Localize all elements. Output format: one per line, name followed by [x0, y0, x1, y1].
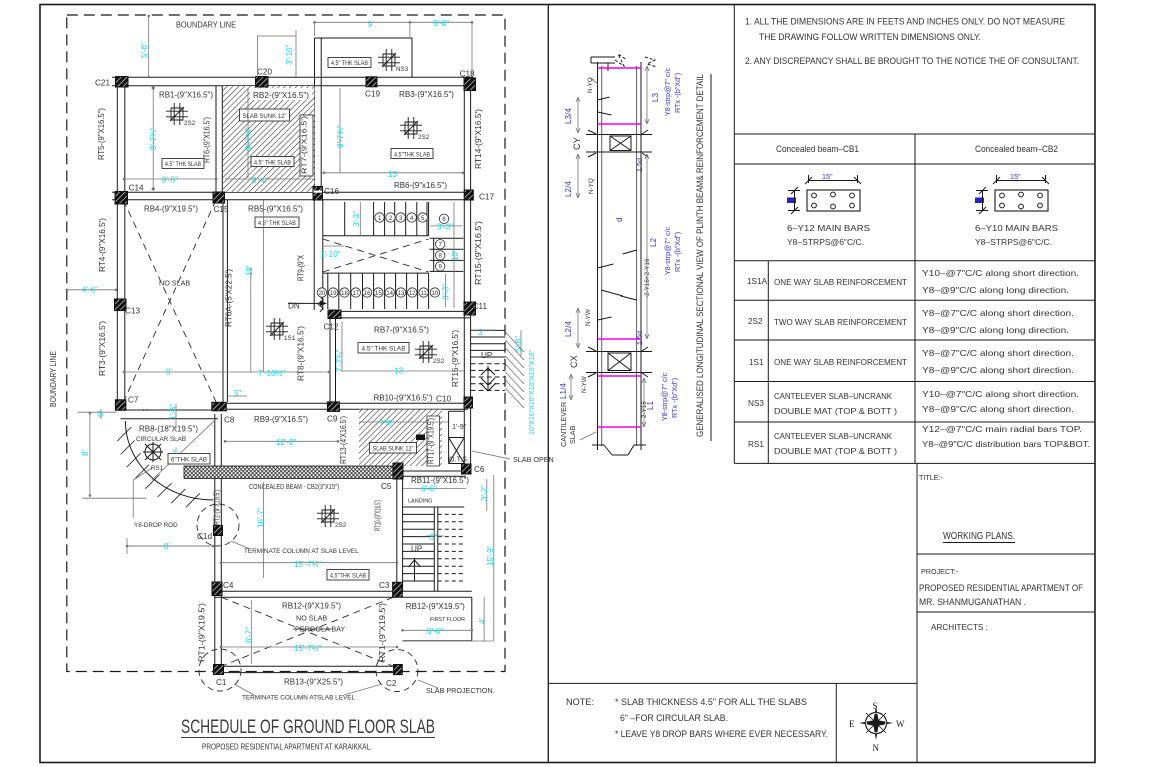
box 4.5 thk slab RB2 — [251, 157, 294, 167]
dim 6'-6" first floor — [403, 629, 472, 631]
svg-text:ONE WAY SLAB REINFORCEMENT: ONE WAY SLAB REINFORCEMENT — [774, 358, 907, 367]
svg-text:C2: C2 — [386, 679, 397, 688]
stirrup magenta 4 — [598, 375, 642, 377]
svg-text:NS3: NS3 — [396, 66, 409, 73]
corridor wall lower (RT2/RT1) — [215, 414, 222, 665]
box slab sunk 12 lower — [370, 443, 417, 454]
svg-text:N: N — [873, 743, 880, 753]
svg-text:SCHEDULE OF GROUND FLOOR SLAB: SCHEDULE OF GROUND FLOOR SLAB — [181, 717, 435, 738]
stirrup magenta 3 — [598, 338, 642, 340]
tread number circles bottom run — [317, 288, 439, 297]
svg-text:1'-6": 1'-6" — [169, 404, 178, 420]
section top break zig — [615, 54, 657, 67]
svg-text:1S1: 1S1 — [749, 358, 764, 367]
box 4.5 thk slab mid-low — [327, 570, 369, 581]
svg-text:CX: CX — [569, 355, 579, 368]
svg-text:RB1-(9"X16.5"): RB1-(9"X16.5") — [159, 91, 213, 100]
svg-text:-2-Y16+2-Y16: -2-Y16+2-Y16 — [644, 258, 651, 298]
svg-text:RB3-(9"X16.5"): RB3-(9"X16.5") — [399, 90, 454, 99]
svg-text:CANTELEVER SLAB–UNCRANK: CANTELEVER SLAB–UNCRANK — [774, 432, 893, 441]
dim line 13' room RB3 — [324, 172, 463, 174]
svg-text:GENERALISED LONGITUDINAL SEC: GENERALISED LONGITUDINAL SECTIONAL VIEW … — [695, 74, 705, 437]
NS3 box top and right — [315, 38, 413, 77]
svg-text:N-YQ: N-YQ — [587, 77, 594, 93]
svg-text:THE DRAWING FOLLOW WRITTEN DIM: THE DRAWING FOLLOW WRITTEN DIMENSIONS ON… — [759, 32, 981, 42]
svg-text:RTx -(b"Xd"): RTx -(b"Xd") — [673, 73, 682, 113]
svg-text:ARCHITECTS :: ARCHITECTS : — [931, 623, 988, 632]
svg-text:Y8–@9"C/C along short dir: Y8–@9"C/C along short direction. — [922, 366, 1074, 375]
svg-text:* LEAVE Y8 DROP BARS WHERE: * LEAVE Y8 DROP BARS WHERE EVER NECESSAR… — [615, 729, 828, 739]
column C2 — [394, 665, 403, 675]
svg-text:Y10–@7"C/C along short di: Y10–@7"C/C along short direction. — [922, 269, 1079, 278]
svg-text:SLAB SUNK 12": SLAB SUNK 12" — [373, 446, 415, 453]
svg-text:BOUNDARY LINE: BOUNDARY LINE — [49, 351, 58, 407]
svg-text:CY: CY — [572, 137, 582, 150]
svg-text:NO SLAB: NO SLAB — [296, 614, 327, 623]
dim 5'-8" vertical top left — [148, 16, 150, 77]
slab projection leader — [418, 680, 438, 688]
dim 6'-6" RB11 — [403, 488, 466, 490]
right wall RT14-RT16 — [464, 86, 470, 464]
svg-text:2S2: 2S2 — [335, 522, 347, 529]
svg-text:6" –FOR CIRCULAR SLAB.: 6" –FOR CIRCULAR SLAB. — [620, 713, 728, 723]
table row line 2 — [734, 299, 1095, 301]
svg-text:RTx -(b"Xd"): RTx -(b"Xd") — [673, 232, 682, 272]
zone divider vertical — [428, 202, 430, 236]
Y8 drop rod leader — [133, 468, 152, 518]
dim 15'-7.75 lower — [221, 646, 397, 648]
svg-text:20: 20 — [319, 291, 326, 297]
svg-text:15'-9": 15'-9" — [486, 545, 495, 566]
column C21 — [116, 77, 129, 88]
svg-text:4.5" THK SLAB: 4.5" THK SLAB — [165, 161, 201, 168]
svg-text:UP: UP — [481, 351, 493, 360]
svg-text:15'-7¾": 15'-7¾" — [294, 560, 321, 569]
table center divider — [914, 134, 916, 463]
wall below C5 — [397, 479, 403, 592]
column C16 — [313, 187, 323, 201]
CB1 beam section drawing — [787, 172, 861, 214]
svg-text:13: 13 — [398, 291, 405, 297]
svg-text:RT6A-(5'X22.5'): RT6A-(5'X22.5') — [225, 269, 234, 327]
O.T.S X mark — [449, 438, 465, 464]
vertical divider between plan and section/notes — [547, 5, 549, 763]
section bottom break — [592, 445, 646, 455]
table bottom line — [734, 462, 1095, 464]
svg-text:L1/4: L1/4 — [559, 383, 568, 399]
svg-text:13': 13' — [388, 170, 399, 179]
column C9 — [327, 402, 339, 412]
svg-text:10"X10"X10"X10"X10"X10": 10"X10"X10"X10"X10"X10" — [529, 350, 536, 435]
terminate leader C1d — [231, 541, 250, 549]
svg-text:2-Y16: 2-Y16 — [641, 401, 648, 418]
landing notch vertical — [344, 202, 346, 236]
svg-text:RT2-(9"X19.5'): RT2-(9"X19.5') — [213, 490, 222, 525]
dim 5'-8" right rot — [520, 330, 522, 356]
slab sunk hatch 2 (near C5) — [359, 410, 442, 467]
svg-text:RB6-(9"x16.5"): RB6-(9"x16.5") — [394, 181, 447, 190]
dim 9'-7.75 RB2 vertical — [247, 88, 249, 178]
beam joint dots — [143, 409, 145, 411]
title block divider 2 — [917, 611, 1095, 613]
bottom run treads — [328, 273, 418, 309]
beam RB7 (C12-C11) — [334, 311, 470, 318]
svg-text:10: 10 — [432, 291, 439, 297]
svg-text:RTx -(b"Xd"): RTx -(b"Xd") — [670, 378, 679, 418]
svg-text:RB9-(9"X16.5"): RB9-(9"X16.5") — [254, 415, 308, 424]
svg-text:RB11-(9"X16.5"): RB11-(9"X16.5") — [411, 476, 469, 485]
section inner rebar line left — [601, 66, 603, 446]
svg-text:17: 17 — [352, 291, 359, 297]
column C1d — [214, 526, 223, 536]
slab sunk hatch RB2 — [223, 86, 315, 192]
dim line left L2/4 lower — [576, 308, 580, 348]
title block divider 1 — [917, 553, 1095, 555]
dashed circle C1d — [197, 504, 239, 546]
svg-text:5'-8": 5'-8" — [140, 42, 149, 58]
symbol NS3 top — [378, 49, 400, 71]
svg-text:SLAB SUNK 12": SLAB SUNK 12" — [243, 113, 288, 120]
svg-text:Y10–@7"C/C along short di: Y10–@7"C/C along short direction. — [922, 390, 1079, 399]
svg-text:7'-7¾": 7'-7¾" — [335, 349, 344, 372]
svg-text:C4: C4 — [223, 581, 234, 590]
dim 4'-6" top left — [67, 289, 116, 291]
section beam right line — [640, 62, 642, 450]
svg-text:RT8-(9"X16.5'): RT8-(9"X16.5') — [297, 326, 306, 381]
table row line 5 — [734, 421, 1095, 423]
svg-text:6–Y12 MAIN BARS: 6–Y12 MAIN BARS — [787, 224, 871, 233]
landing line — [403, 506, 465, 508]
svg-text:C21: C21 — [95, 79, 110, 88]
svg-text:C13: C13 — [125, 307, 140, 316]
svg-text:L2/4: L2/4 — [564, 321, 573, 337]
svg-text:L3: L3 — [651, 92, 660, 102]
svg-text:L3/4: L3/4 — [564, 108, 573, 124]
svg-text:Y8-strp@7" c/c: Y8-strp@7" c/c — [660, 372, 669, 421]
svg-text:9'-7¾": 9'-7¾" — [336, 125, 345, 148]
svg-text:Y8–STRPS@6"C/C.: Y8–STRPS@6"C/C. — [975, 238, 1052, 247]
svg-text:MR. SHANMUGANATHAN .: MR. SHANMUGANATHAN . — [919, 597, 1026, 607]
svg-text:15": 15" — [822, 172, 833, 181]
dim 8' circular horizontal — [127, 538, 213, 554]
svg-text:2S2: 2S2 — [748, 317, 763, 326]
svg-text:7'-8: 7'-8 — [380, 420, 392, 427]
dim 3'-3" right — [430, 225, 462, 227]
column C18 — [464, 78, 476, 91]
svg-text:15": 15" — [1010, 172, 1021, 181]
svg-text:S: S — [873, 701, 878, 711]
concealed beam crosshatch band — [184, 466, 396, 479]
svg-text:RT6-(9"X16.5'): RT6-(9"X16.5') — [203, 117, 212, 163]
svg-text:ONE WAY SLAB REINFORCEMENT: ONE WAY SLAB REINFORCEMENT — [774, 278, 907, 287]
first floor room right of C3 — [403, 597, 472, 641]
svg-text:Y8-DROP ROD: Y8-DROP ROD — [134, 522, 178, 529]
svg-text:RT1-(9"X19.5'): RT1-(9"X19.5') — [198, 603, 207, 662]
svg-text:1. ALL THE DIMENSIONS ARE IN: 1. ALL THE DIMENSIONS ARE IN FEETS AND I… — [745, 17, 1065, 27]
dim 9' / 5'-6" top line — [315, 22, 473, 76]
svg-text:C6: C6 — [474, 465, 485, 474]
svg-text:C8: C8 — [224, 416, 235, 425]
svg-text:O.T.S.: O.T.S. — [449, 455, 469, 464]
dim 1'-6" small — [175, 404, 177, 428]
dim 9" small — [100, 409, 102, 419]
terminate leaders C1 C2 — [234, 684, 382, 695]
section title underline — [710, 74, 712, 441]
svg-text:DOUBLE MAT (TOP & BOTT ): DOUBLE MAT (TOP & BOTT ) — [774, 447, 897, 456]
svg-text:RB2-(9"X16.5"): RB2-(9"X16.5") — [253, 91, 309, 100]
stirrup magenta 2 — [598, 123, 642, 125]
svg-text:1'-9": 1'-9" — [452, 422, 467, 431]
svg-text:BOUNDARY LINE: BOUNDARY LINE — [176, 21, 236, 30]
column C14 — [115, 192, 128, 205]
svg-text:5'-6": 5'-6" — [433, 19, 449, 28]
compass box divider — [835, 683, 837, 762]
svg-text:RT7-(9'X16.5'): RT7-(9'X16.5') — [300, 116, 309, 174]
row2 beam C14-C17 double line — [112, 192, 473, 200]
svg-text:6–Y10 MAIN BARS: 6–Y10 MAIN BARS — [975, 224, 1059, 233]
table row line 4 — [734, 381, 1095, 383]
svg-text:3'-3": 3'-3" — [437, 223, 453, 232]
section beam left line — [597, 62, 599, 450]
svg-text:* SLAB THICKNESS 4.5" FOR: * SLAB THICKNESS 4.5" FOR ALL THE SLABS — [615, 697, 807, 707]
corridor wall upper (RT6) — [216, 86, 222, 192]
svg-text:7'-10½": 7'-10½" — [258, 369, 285, 378]
svg-text:RT5-(9"X16.5"): RT5-(9"X16.5") — [97, 108, 106, 160]
svg-text:C16: C16 — [324, 187, 339, 196]
svg-text:RT14-(9"X16.5'): RT14-(9"X16.5') — [474, 109, 483, 169]
svg-text:RT16-(9"X16.5'): RT16-(9"X16.5') — [451, 330, 460, 387]
section inner rebar line right — [636, 66, 638, 446]
dim 3'-10" vertical — [295, 30, 297, 77]
svg-text:3'-2": 3'-2" — [480, 485, 489, 501]
leader lines to 10" stack — [505, 332, 524, 408]
arc hatch ticks — [117, 427, 200, 507]
dim 5" lower stair — [426, 530, 444, 542]
svg-text:WORKING PLANS.: WORKING PLANS. — [943, 531, 1015, 542]
svg-text:C10: C10 — [436, 395, 451, 404]
dashed circle C2 — [376, 650, 418, 692]
column C6 — [462, 464, 472, 474]
svg-text:C9: C9 — [327, 415, 338, 424]
stair right treads horizontal (7-9) — [430, 238, 464, 271]
svg-text:RT17-(9"X19.5'): RT17-(9"X19.5') — [427, 418, 436, 464]
svg-text:9': 9' — [368, 20, 374, 29]
dim line 8'-5" — [124, 178, 218, 180]
radius line 8ft — [152, 420, 215, 480]
svg-text:4.5" THK SLAB: 4.5" THK SLAB — [331, 60, 368, 67]
symbol 2S2 in RB7 — [415, 341, 437, 363]
section top slab edge — [591, 57, 615, 71]
symbol 1S1 mid — [266, 318, 288, 340]
svg-text:9'-7¾": 9'-7¾" — [149, 127, 158, 150]
dim 16'-7 vertical upper — [263, 200, 265, 372]
svg-text:C1: C1 — [216, 678, 227, 687]
table row line 1 — [734, 260, 1095, 262]
svg-text:10': 10' — [451, 250, 460, 261]
svg-text:CIRCULAR SLAB: CIRCULAR SLAB — [136, 436, 186, 443]
svg-text:C12: C12 — [324, 323, 339, 332]
svg-text:L2/4: L2/4 — [564, 181, 573, 197]
box 4.5 thk slab RB7 — [358, 343, 409, 354]
svg-text:TITLE:-: TITLE:- — [919, 473, 944, 482]
beam RB13 (C1-C2) — [218, 666, 398, 672]
bottom run top line — [323, 273, 429, 309]
svg-text:12: 12 — [409, 291, 416, 297]
column C19 — [366, 77, 377, 87]
svg-text:TWO WAY SLAB REINFORCEMENT: TWO WAY SLAB REINFORCEMENT — [774, 318, 907, 327]
black insert in hatch 2 — [416, 435, 425, 441]
dim riser first floor — [403, 640, 494, 642]
svg-text:PROPOSED RESIDENTIAL APARTMENT: PROPOSED RESIDENTIAL APARTMENT AT KARAIK… — [202, 742, 372, 752]
svg-text:CONCEALED BEAM - CB2(3"X15"): CONCEALED BEAM - CB2(3"X15") — [249, 482, 339, 491]
beam RB8 (C7-C8) — [121, 410, 219, 419]
table header top line — [734, 133, 1095, 135]
svg-text:NS3: NS3 — [748, 399, 764, 408]
svg-text:16'-7": 16'-7" — [257, 507, 266, 528]
svg-text:C19: C19 — [365, 90, 380, 99]
svg-text:C18: C18 — [460, 70, 475, 79]
svg-text:4.5" THK SLAB: 4.5" THK SLAB — [362, 346, 407, 353]
dim 18' vertical — [250, 268, 252, 372]
svg-text:11: 11 — [420, 291, 427, 297]
dim 16'-7 vertical lower — [263, 482, 265, 578]
svg-text:RT3-(9"X16.5'): RT3-(9"X16.5') — [98, 321, 107, 376]
svg-text:1.5d: 1.5d — [635, 158, 644, 172]
svg-text:RT4-(9"X16.5'): RT4-(9"X16.5') — [98, 218, 107, 272]
top run treads — [374, 202, 427, 236]
table header bottom line — [734, 163, 1095, 165]
wall C upper (RT7 line, NS3 to C16) — [315, 38, 322, 192]
svg-text:RS1: RS1 — [748, 440, 764, 449]
box RT7 vertical — [300, 115, 313, 176]
column C1 — [214, 665, 224, 675]
column C10 — [464, 397, 473, 408]
svg-text:UP: UP — [411, 545, 423, 554]
beam RB12 (C4-C3 and beyond) — [214, 591, 472, 597]
tread number circles top run — [375, 213, 449, 271]
symbol 2S2 lower mid — [317, 505, 339, 527]
column C17 — [464, 190, 473, 200]
svg-text:3'-3": 3'-3" — [352, 211, 361, 227]
svg-text:RB7-(9"X16.5"): RB7-(9"X16.5") — [374, 326, 429, 335]
svg-text:5'-8": 5'-8" — [514, 336, 523, 352]
svg-text:N-YW: N-YW — [585, 309, 592, 326]
column C11 — [464, 302, 476, 315]
table label column divider — [767, 261, 769, 464]
dim 3'-3 lower rot — [445, 274, 447, 307]
svg-text:RT9-(9"X: RT9-(9"X — [297, 255, 306, 281]
dim 13' line RB7 — [341, 370, 464, 372]
dim 9'-7.75 RB1 vertical — [152, 88, 154, 189]
svg-text:C20: C20 — [257, 68, 272, 77]
column C4 — [212, 582, 222, 596]
svg-text:Concealed beam–CB2: Concealed beam–CB2 — [975, 144, 1058, 154]
svg-text:DOUBLE MAT (TOP & BOTT ): DOUBLE MAT (TOP & BOTT ) — [774, 407, 897, 416]
left wall RT5-RT3 double line — [117, 86, 125, 400]
column joint CX — [586, 347, 652, 377]
dim 8' circular vertical — [78, 412, 147, 498]
column C8 — [212, 402, 227, 411]
stair landing top line — [323, 235, 429, 237]
svg-text:13': 13' — [394, 367, 405, 376]
tread numbers top — [378, 216, 447, 271]
svg-text:SLAB PROJECTION.: SLAB PROJECTION. — [426, 686, 495, 695]
dim 9' / 7'-10 line — [124, 371, 329, 373]
svg-text:RB13-(9"X25.5"): RB13-(9"X25.5") — [284, 678, 343, 687]
svg-text:Y8-strp@7" c/c: Y8-strp@7" c/c — [663, 67, 672, 116]
svg-text:2S2: 2S2 — [184, 120, 196, 127]
svg-text:SLAB: SLAB — [568, 425, 577, 444]
svg-text:TERMINATE COLUMN ATSLAB LEVEL: TERMINATE COLUMN ATSLAB LEVEL — [242, 695, 355, 702]
up arrow symbol right stair — [480, 366, 496, 391]
svg-text:PROPOSED RESIDENTIAL APARTME: PROPOSED RESIDENTIAL APARTMENT OF — [919, 583, 1083, 593]
dim line left L2/4 upper — [576, 154, 580, 198]
box 4.5 thk slab NS3 — [328, 58, 371, 68]
note box top line — [548, 682, 917, 684]
svg-text:SLAB OPEN: SLAB OPEN — [513, 455, 554, 464]
svg-text:RT13-(4'X16.5'): RT13-(4'X16.5') — [339, 416, 348, 464]
dim 8' C1d line — [127, 545, 211, 547]
box 4.5 thk slab RB1 — [162, 159, 204, 169]
dashed circle C1 — [199, 649, 241, 691]
svg-text:1.5d: 1.5d — [635, 331, 644, 345]
svg-text:9": 9" — [98, 410, 105, 417]
RB4 no-slab cross — [123, 200, 216, 402]
wall C12-C9 — [330, 319, 336, 403]
compass rose — [849, 701, 905, 753]
svg-text:RT10-(9"X16.5'): RT10-(9"X16.5') — [374, 500, 383, 531]
svg-text:8': 8' — [81, 450, 90, 456]
svg-text:2. ANY DISCREPANCY SHALL BE B: 2. ANY DISCREPANCY SHALL BE BROUGHT TO T… — [745, 56, 1079, 66]
column C20 — [256, 77, 269, 88]
svg-text:RB12-(9"X19.5"): RB12-(9"X19.5") — [282, 602, 341, 611]
svg-text:DN: DN — [288, 302, 300, 311]
svg-text:4.5"THK SLAB: 4.5"THK SLAB — [330, 573, 366, 580]
svg-text:8'-5": 8'-5" — [162, 176, 178, 185]
svg-text:Y8–@9"C/C along short dir: Y8–@9"C/C along short direction. — [922, 405, 1074, 414]
lower stair up arrow — [409, 558, 421, 581]
svg-text:Y8–@7"C/C along short dir: Y8–@7"C/C along short direction. — [922, 349, 1074, 358]
O.T.S shaft box — [449, 411, 465, 463]
svg-text:18': 18' — [245, 265, 254, 276]
svg-text:RB8-(18"X19.5"): RB8-(18"X19.5") — [139, 425, 198, 434]
top beam RB1-RB3 double line — [112, 77, 473, 85]
svg-text:RB10-(9"X16.5"): RB10-(9"X16.5") — [374, 393, 433, 402]
pergola bay cross — [221, 597, 393, 666]
column C13 — [115, 299, 127, 311]
dim 4' vertical — [483, 597, 485, 641]
svg-text:3': 3' — [478, 328, 484, 337]
svg-text:16: 16 — [364, 291, 371, 297]
notes/table left border — [733, 5, 735, 464]
svg-text:4.5"THK SLAB: 4.5"THK SLAB — [394, 151, 430, 158]
symbol 2S2 in RB1 — [166, 103, 188, 125]
svg-text:4': 4' — [478, 618, 487, 624]
svg-text:TERMINATE COLUMN AT SLAB LEVEL: TERMINATE COLUMN AT SLAB LEVEL — [244, 548, 359, 555]
lower stair treads — [403, 507, 465, 591]
svg-text:6'-6": 6'-6" — [421, 485, 437, 494]
title block left border — [916, 463, 918, 762]
svg-text:9'-7¾": 9'-7¾" — [244, 127, 253, 150]
dim 3'-2" right — [486, 479, 488, 511]
small leader N-YQ top — [590, 78, 598, 84]
beam RB9/RB10 (C8-C10) — [218, 403, 468, 409]
DN passage line and arrow — [288, 302, 323, 304]
svg-text:8'-4": 8'-4" — [252, 176, 268, 185]
svg-text:E: E — [849, 719, 855, 729]
svg-text:6"THK SLAB: 6"THK SLAB — [171, 457, 208, 464]
svg-text:N-YQ: N-YQ — [588, 178, 595, 194]
